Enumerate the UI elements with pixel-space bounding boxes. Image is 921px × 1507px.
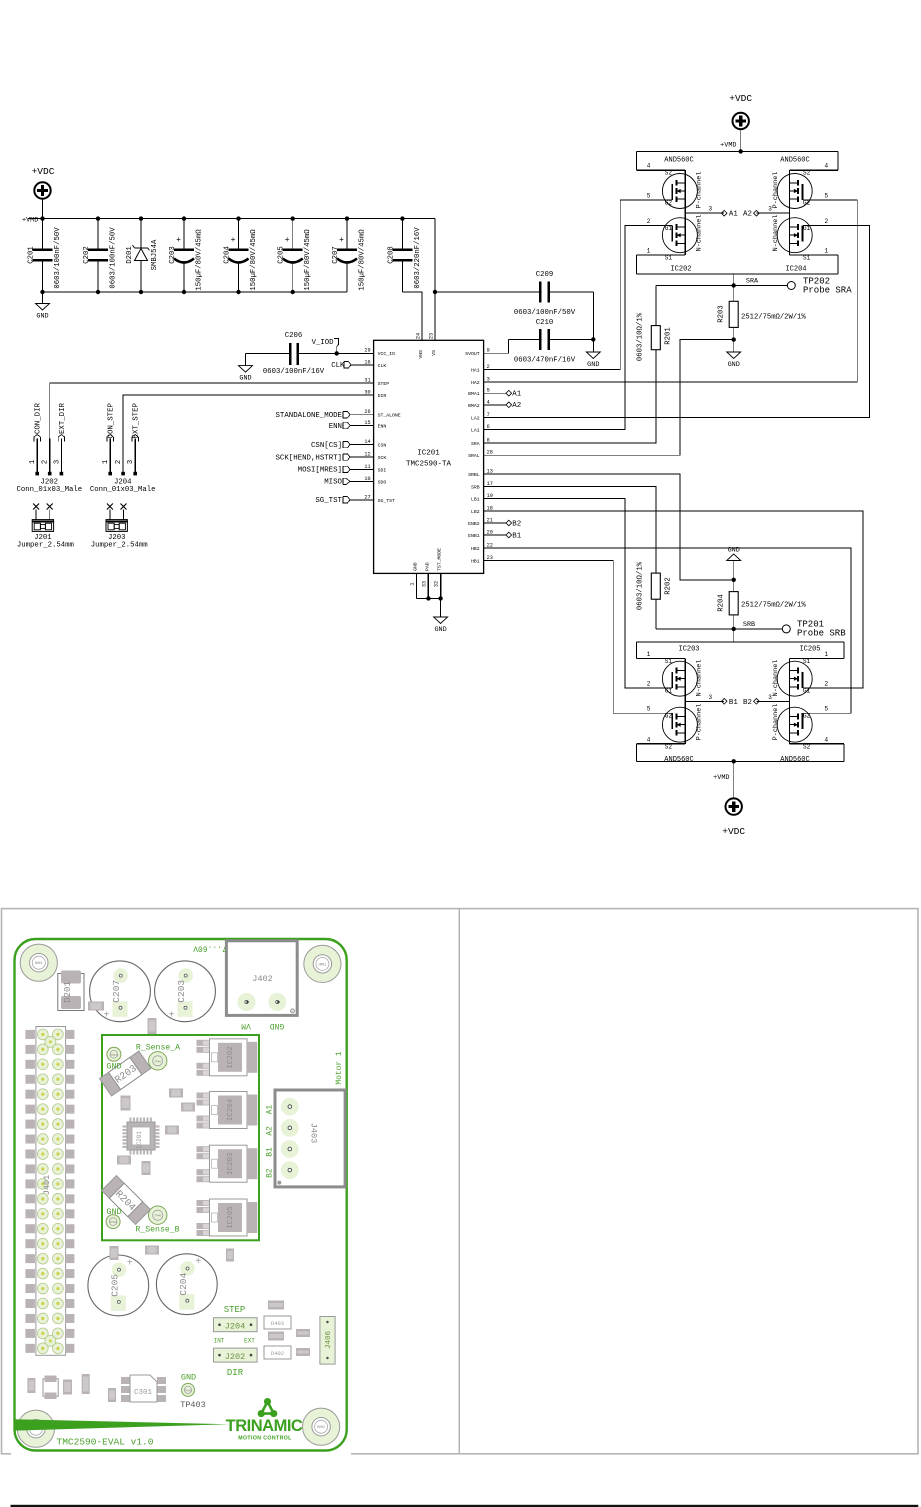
svg-text:A2: A2 — [512, 402, 521, 410]
svg-text:IC203: IC203 — [678, 646, 699, 654]
svg-text:AND560C: AND560C — [780, 157, 809, 165]
svg-text:GND: GND — [728, 361, 740, 369]
svg-text:A1: A1 — [512, 391, 521, 399]
svg-text:H#01: H#01 — [35, 961, 43, 965]
svg-text:0603/100nF/50V: 0603/100nF/50V — [54, 227, 62, 289]
svg-text:GND: GND — [181, 1373, 196, 1383]
svg-text:0603/10Ω/1%: 0603/10Ω/1% — [637, 561, 645, 610]
svg-text:30: 30 — [364, 389, 370, 395]
svg-text:S2: S2 — [665, 743, 673, 750]
svg-text:8: 8 — [487, 438, 490, 444]
svg-text:IC203: IC203 — [227, 1152, 235, 1175]
svg-text:ENN: ENN — [378, 424, 387, 430]
svg-text:TP#0: TP#0 — [184, 1389, 191, 1392]
svg-text:+VMD: +VMD — [713, 774, 729, 782]
svg-text:0603/100nF/50V: 0603/100nF/50V — [514, 309, 576, 317]
svg-text:R204: R204 — [718, 594, 726, 612]
svg-text:5: 5 — [647, 193, 651, 200]
svg-text:J402: J402 — [252, 974, 272, 984]
svg-text:A1: A1 — [265, 1105, 274, 1115]
svg-text:C207: C207 — [332, 246, 340, 264]
svg-text:150µF/80V/45mΩ: 150µF/80V/45mΩ — [250, 229, 258, 291]
svg-text:21: 21 — [487, 518, 493, 524]
svg-text:2512/75mΩ/2W/1%: 2512/75mΩ/2W/1% — [741, 602, 806, 610]
svg-text:HB2: HB2 — [471, 546, 480, 552]
svg-text:TP#0: TP#0 — [110, 1054, 117, 1057]
svg-text:B1: B1 — [729, 699, 738, 707]
svg-text:Conn_01x03_Male: Conn_01x03_Male — [16, 486, 82, 494]
svg-text:VM: VM — [241, 1021, 251, 1030]
svg-text:TP#0: TP#0 — [154, 1060, 161, 1063]
svg-text:P-channel: P-channel — [772, 172, 780, 209]
svg-text:J204: J204 — [225, 1322, 245, 1332]
svg-text:24: 24 — [416, 333, 422, 339]
svg-text:C204: C204 — [178, 1273, 189, 1296]
svg-text:23: 23 — [429, 333, 435, 339]
svg-text:3: 3 — [708, 206, 712, 213]
svg-text:INT: INT — [214, 1338, 225, 1345]
svg-text:G2: G2 — [665, 713, 673, 720]
svg-text:P-channel: P-channel — [772, 704, 780, 741]
svg-text:G1: G1 — [803, 688, 811, 695]
svg-text:+VMD: +VMD — [720, 142, 736, 150]
svg-text:H#01: H#01 — [319, 962, 327, 966]
svg-text:R201: R201 — [665, 327, 673, 345]
svg-text:N-channel: N-channel — [696, 215, 704, 252]
svg-text:+: + — [176, 236, 181, 245]
svg-text:SCK: SCK — [378, 455, 387, 461]
svg-text:SCK[HEND,HSTRT]: SCK[HEND,HSTRT] — [275, 454, 342, 462]
svg-text:IC204: IC204 — [785, 266, 806, 274]
svg-text:PAD: PAD — [424, 562, 430, 571]
svg-text:EXT_DIR: EXT_DIR — [59, 402, 67, 434]
svg-text:3: 3 — [487, 376, 490, 382]
svg-text:SDI: SDI — [378, 467, 387, 473]
svg-text:+: + — [339, 236, 344, 245]
svg-text:SRB: SRB — [743, 621, 755, 629]
svg-text:+: + — [195, 1257, 201, 1268]
svg-text:+: + — [231, 236, 236, 245]
svg-text:N-channel: N-channel — [772, 215, 780, 252]
svg-text:CON_DIR: CON_DIR — [35, 402, 43, 434]
svg-text:J202: J202 — [225, 1352, 245, 1362]
svg-text:R203: R203 — [718, 305, 726, 323]
svg-text:AND560C: AND560C — [664, 157, 693, 165]
svg-text:TMC2590-TA: TMC2590-TA — [406, 461, 452, 469]
svg-text:33: 33 — [422, 581, 428, 587]
svg-text:A2: A2 — [265, 1126, 274, 1136]
svg-text:2: 2 — [824, 218, 828, 225]
svg-text:DIR: DIR — [227, 1368, 244, 1378]
svg-text:R202: R202 — [665, 577, 673, 595]
svg-text:C204: C204 — [224, 246, 232, 264]
svg-text:J401: J401 — [42, 1175, 52, 1195]
svg-text:GND: GND — [434, 626, 446, 634]
svg-text:SG_TST: SG_TST — [378, 498, 395, 504]
svg-text:23: 23 — [487, 555, 493, 561]
svg-text:D403: D403 — [271, 1320, 284, 1327]
svg-text:TST_MODE: TST_MODE — [437, 548, 443, 571]
svg-text:7...60V: 7...60V — [193, 944, 227, 953]
svg-text:S2: S2 — [665, 170, 673, 177]
svg-text:ST_ALONE: ST_ALONE — [378, 413, 401, 419]
svg-text:G2: G2 — [803, 200, 811, 207]
svg-text:A2: A2 — [743, 211, 752, 219]
svg-text:V_IOD: V_IOD — [312, 339, 335, 347]
svg-text:150µF/80V/45mΩ: 150µF/80V/45mΩ — [359, 229, 367, 291]
svg-text:17: 17 — [487, 481, 493, 487]
svg-text:150µF/80V/45mΩ: 150µF/80V/45mΩ — [196, 229, 204, 291]
svg-text:Motor 1: Motor 1 — [335, 1051, 344, 1084]
svg-text:32: 32 — [434, 581, 440, 587]
svg-text:GND: GND — [270, 1021, 285, 1030]
svg-text:MOSI[MRES]: MOSI[MRES] — [298, 467, 342, 475]
svg-text:Probe SRA: Probe SRA — [803, 286, 852, 296]
svg-text:LA2: LA2 — [471, 416, 480, 422]
svg-text:31: 31 — [364, 378, 370, 384]
svg-text:1: 1 — [29, 460, 37, 464]
svg-text:TP#0: TP#0 — [109, 1221, 116, 1224]
svg-text:B2: B2 — [512, 520, 521, 528]
svg-text:TP403: TP403 — [180, 1400, 206, 1410]
svg-text:29: 29 — [364, 348, 370, 354]
svg-text:G1: G1 — [665, 688, 673, 695]
svg-text:IC205: IC205 — [227, 1206, 235, 1229]
svg-text:0603/100nF/16V: 0603/100nF/16V — [263, 368, 325, 376]
svg-text:C207: C207 — [111, 980, 122, 1003]
svg-text:+VDC: +VDC — [32, 166, 55, 177]
svg-text:2: 2 — [647, 681, 651, 688]
svg-text:19: 19 — [487, 493, 493, 499]
svg-text:J403: J403 — [309, 1123, 319, 1143]
svg-text:9: 9 — [487, 348, 490, 354]
svg-text:BMA2: BMA2 — [468, 403, 480, 409]
svg-text:N-channel: N-channel — [772, 660, 780, 697]
svg-text:+: + — [103, 1010, 109, 1021]
svg-text:+VMD: +VMD — [22, 217, 38, 225]
svg-text:CSN[CS]: CSN[CS] — [311, 442, 342, 450]
svg-text:SG_TST: SG_TST — [315, 497, 342, 505]
svg-text:ENB1: ENB1 — [468, 533, 480, 539]
svg-text:LB1: LB1 — [471, 497, 480, 503]
svg-text:VS: VS — [431, 350, 437, 356]
svg-text:GND: GND — [587, 361, 599, 369]
svg-text:G1: G1 — [665, 225, 673, 232]
svg-text:1: 1 — [410, 582, 416, 585]
svg-text:GND: GND — [36, 313, 48, 321]
svg-text:C203: C203 — [176, 980, 187, 1003]
svg-text:C203: C203 — [169, 246, 177, 264]
svg-text:Jumper_2.54mm: Jumper_2.54mm — [91, 542, 148, 550]
svg-text:1: 1 — [824, 651, 828, 658]
svg-text:CLK: CLK — [331, 362, 345, 370]
svg-text:IC204: IC204 — [227, 1098, 235, 1121]
svg-text:CLK: CLK — [378, 363, 387, 369]
svg-text:SRBL: SRBL — [468, 472, 480, 478]
svg-text:GND: GND — [728, 547, 740, 555]
svg-text:Jumper_2.54mm: Jumper_2.54mm — [17, 542, 74, 550]
svg-text:A1: A1 — [729, 211, 738, 219]
svg-text:2: 2 — [487, 364, 490, 370]
svg-text:CSN: CSN — [378, 443, 387, 449]
svg-text:IC201: IC201 — [417, 450, 440, 458]
svg-text:MOTION CONTROL: MOTION CONTROL — [238, 1436, 292, 1442]
svg-text:3: 3 — [127, 460, 135, 464]
svg-text:20: 20 — [487, 530, 493, 536]
svg-text:2: 2 — [42, 460, 50, 464]
svg-text:+: + — [168, 1010, 174, 1021]
svg-text:5: 5 — [824, 193, 828, 200]
svg-text:2: 2 — [824, 681, 828, 688]
svg-text:D402: D402 — [271, 1350, 284, 1357]
svg-text:STANDALONE_MODE: STANDALONE_MODE — [275, 412, 342, 420]
svg-text:4: 4 — [487, 399, 490, 405]
svg-text:5: 5 — [487, 388, 490, 394]
svg-text:3: 3 — [53, 460, 61, 464]
svg-text:B2: B2 — [265, 1168, 274, 1178]
svg-text:HB1: HB1 — [471, 559, 480, 565]
svg-text:S1: S1 — [665, 254, 673, 261]
svg-text:VHS: VHS — [418, 350, 424, 359]
svg-text:C206: C206 — [285, 332, 303, 340]
svg-text:STEP: STEP — [378, 381, 390, 387]
svg-text:C210: C210 — [536, 319, 554, 327]
svg-text:5: 5 — [647, 706, 651, 713]
svg-text:P-channel: P-channel — [696, 704, 704, 741]
svg-text:4: 4 — [647, 736, 651, 743]
svg-text:SRB: SRB — [471, 485, 480, 491]
svg-text:C208: C208 — [387, 246, 395, 264]
svg-text:GND: GND — [412, 562, 418, 571]
svg-text:S1: S1 — [665, 658, 673, 665]
svg-text:18: 18 — [487, 506, 493, 512]
svg-text:1: 1 — [824, 247, 828, 254]
svg-text:+VDC: +VDC — [729, 93, 752, 104]
svg-text:0603/100nF/50V: 0603/100nF/50V — [110, 227, 118, 289]
svg-text:C209: C209 — [536, 271, 554, 279]
svg-text:SRA: SRA — [746, 278, 759, 286]
svg-text:G2: G2 — [803, 713, 811, 720]
svg-text:4: 4 — [824, 736, 828, 743]
svg-text:6: 6 — [487, 424, 490, 430]
svg-text:H#01: H#01 — [317, 1425, 325, 1429]
svg-text:EXT: EXT — [244, 1338, 255, 1345]
svg-text:B1: B1 — [512, 532, 521, 540]
svg-text:R_Sense_B: R_Sense_B — [135, 1226, 179, 1235]
svg-text:LA1: LA1 — [471, 428, 480, 434]
svg-text:S2: S2 — [803, 170, 811, 177]
svg-text:2512/75mΩ/2W/1%: 2512/75mΩ/2W/1% — [741, 314, 806, 322]
svg-text:4: 4 — [647, 163, 651, 170]
svg-text:Probe SRB: Probe SRB — [797, 629, 846, 639]
svg-text:0603/220nF/16V: 0603/220nF/16V — [414, 227, 422, 289]
svg-text:1: 1 — [647, 651, 651, 658]
svg-text:S1: S1 — [803, 254, 811, 261]
svg-text:C202: C202 — [83, 246, 91, 264]
svg-text:13: 13 — [487, 469, 493, 475]
svg-text:+: + — [285, 236, 290, 245]
svg-text:150µF/80V/45mΩ: 150µF/80V/45mΩ — [304, 229, 312, 291]
svg-text:EXT_STEP: EXT_STEP — [133, 402, 141, 438]
svg-text:3: 3 — [708, 694, 712, 701]
svg-text:IC201: IC201 — [136, 1131, 143, 1149]
svg-text:HA1: HA1 — [471, 368, 480, 374]
svg-text:N-channel: N-channel — [696, 660, 704, 697]
svg-text:D201: D201 — [126, 246, 134, 264]
svg-text:C201: C201 — [28, 246, 36, 264]
svg-text:DIR: DIR — [378, 393, 387, 399]
svg-text:AND560C: AND560C — [664, 756, 693, 764]
svg-text:Conn_01x03_Male: Conn_01x03_Male — [90, 486, 156, 494]
svg-text:28: 28 — [487, 450, 493, 456]
svg-text:7: 7 — [487, 412, 490, 418]
svg-text:ENB2: ENB2 — [468, 521, 480, 527]
svg-text:2: 2 — [115, 460, 123, 464]
svg-text:CON_STEP: CON_STEP — [108, 402, 116, 438]
svg-text:P-channel: P-channel — [696, 172, 704, 209]
svg-text:TP#0: TP#0 — [154, 1215, 161, 1218]
svg-text:TMC2590-EVAL v1.0: TMC2590-EVAL v1.0 — [57, 1437, 154, 1448]
svg-text:SRAL: SRAL — [468, 453, 480, 459]
svg-text:TRINAMIC: TRINAMIC — [226, 1417, 303, 1435]
svg-text:IC202: IC202 — [670, 266, 691, 274]
svg-text:+: + — [127, 1258, 133, 1269]
svg-text:GND: GND — [106, 1207, 121, 1217]
svg-text:LB2: LB2 — [471, 509, 480, 515]
svg-text:SRA: SRA — [471, 441, 480, 447]
svg-text:VCC_IO: VCC_IO — [378, 351, 395, 357]
svg-text:+VDC: +VDC — [722, 826, 745, 837]
svg-text:5: 5 — [824, 706, 828, 713]
svg-text:GND: GND — [239, 375, 251, 383]
svg-text:ENN: ENN — [329, 423, 342, 431]
svg-text:1: 1 — [102, 460, 110, 464]
svg-text:5VOUT: 5VOUT — [465, 351, 480, 357]
svg-text:STEP: STEP — [224, 1305, 246, 1315]
svg-text:B1: B1 — [265, 1147, 274, 1157]
svg-text:J406: J406 — [325, 1331, 333, 1350]
svg-text:BMA1: BMA1 — [468, 391, 480, 397]
svg-text:22: 22 — [487, 543, 493, 549]
svg-text:G2: G2 — [665, 200, 673, 207]
svg-text:SMBJ54A: SMBJ54A — [151, 239, 159, 270]
svg-text:AND560C: AND560C — [780, 756, 809, 764]
svg-text:G1: G1 — [803, 225, 811, 232]
svg-text:2: 2 — [647, 218, 651, 225]
svg-text:1: 1 — [647, 247, 651, 254]
svg-text:IC202: IC202 — [227, 1046, 235, 1069]
svg-text:4: 4 — [824, 163, 828, 170]
svg-text:S1: S1 — [803, 658, 811, 665]
svg-text:0603/470nF/16V: 0603/470nF/16V — [514, 357, 576, 365]
svg-text:S2: S2 — [803, 743, 811, 750]
svg-text:C301: C301 — [134, 1389, 153, 1397]
svg-text:MISO: MISO — [324, 479, 342, 487]
svg-text:B2: B2 — [743, 699, 752, 707]
svg-text:D201: D201 — [63, 981, 73, 1003]
svg-text:C205: C205 — [109, 1274, 120, 1297]
svg-text:C205: C205 — [278, 246, 286, 264]
svg-text:HA2: HA2 — [471, 380, 480, 386]
svg-text:GND: GND — [106, 1062, 121, 1072]
svg-text:SDO: SDO — [378, 479, 387, 485]
svg-text:0603/10Ω/1%: 0603/10Ω/1% — [637, 312, 645, 361]
svg-text:IC205: IC205 — [799, 646, 820, 654]
